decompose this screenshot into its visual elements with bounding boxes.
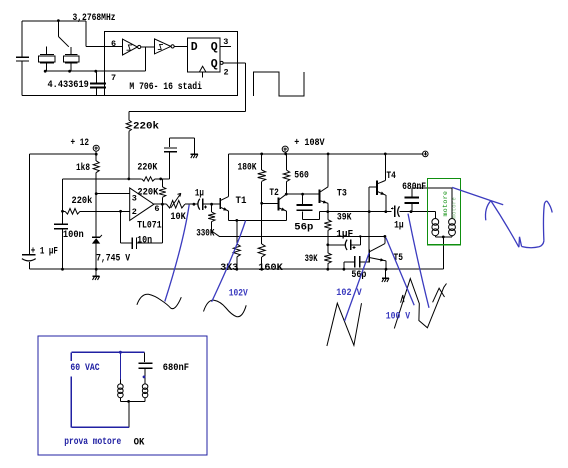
- svg-text:motore: motore: [450, 197, 457, 219]
- svg-text:T4: T4: [386, 171, 396, 182]
- svg-text:220K: 220K: [137, 187, 158, 198]
- svg-text:1μ: 1μ: [394, 221, 404, 232]
- svg-text:2: 2: [224, 67, 229, 77]
- svg-text:6: 6: [154, 204, 159, 214]
- svg-text:1μF: 1μF: [336, 229, 353, 240]
- svg-text:3: 3: [223, 37, 228, 47]
- svg-text:10n: 10n: [137, 235, 152, 246]
- svg-text:220k: 220k: [72, 195, 93, 207]
- svg-text:+ 1 μF: + 1 μF: [31, 246, 58, 257]
- svg-text:330K: 330K: [196, 229, 214, 240]
- svg-text:2: 2: [132, 207, 137, 217]
- svg-text:180K: 180K: [238, 163, 257, 174]
- svg-text:10K: 10K: [170, 212, 185, 223]
- svg-text:+ 108V: + 108V: [294, 138, 324, 149]
- svg-text:3,2768MHz: 3,2768MHz: [73, 13, 116, 24]
- svg-text:4.433619: 4.433619: [48, 80, 89, 91]
- svg-text:3K3: 3K3: [220, 263, 238, 274]
- svg-text:3: 3: [132, 194, 137, 204]
- svg-text:56p: 56p: [294, 223, 313, 234]
- svg-text:1μ: 1μ: [195, 189, 204, 200]
- svg-text:T3: T3: [337, 189, 347, 200]
- svg-text:motore: motore: [442, 191, 449, 217]
- svg-text:39K: 39K: [337, 213, 352, 224]
- svg-text:+ 12: + 12: [71, 138, 90, 149]
- svg-text:M 706- 16 stadi: M 706- 16 stadi: [129, 81, 202, 93]
- svg-text:7: 7: [111, 73, 116, 83]
- svg-text:39K: 39K: [305, 254, 318, 265]
- svg-text:TL071: TL071: [137, 221, 162, 232]
- svg-text:T1: T1: [236, 196, 247, 207]
- svg-text:102V: 102V: [229, 288, 248, 299]
- svg-text:680nF: 680nF: [402, 182, 426, 193]
- svg-text:100n: 100n: [63, 230, 84, 241]
- svg-text:D: D: [191, 41, 198, 54]
- svg-text:560: 560: [294, 171, 309, 182]
- svg-text:102 V: 102 V: [336, 288, 361, 299]
- svg-text:100 V: 100 V: [386, 312, 410, 323]
- svg-text:OK: OK: [134, 437, 145, 449]
- svg-text:T2: T2: [269, 188, 278, 199]
- svg-text:1k8: 1k8: [76, 162, 90, 174]
- svg-text:7,745 V: 7,745 V: [96, 254, 130, 265]
- svg-text:6: 6: [111, 39, 116, 49]
- svg-text:prova motore: prova motore: [64, 436, 121, 448]
- svg-text:220K: 220K: [137, 163, 157, 174]
- svg-text:220k: 220k: [133, 121, 159, 133]
- svg-text:60 VAC: 60 VAC: [70, 363, 99, 374]
- svg-text:680nF: 680nF: [163, 363, 189, 374]
- svg-text:Q: Q: [211, 41, 218, 54]
- svg-text:Q: Q: [211, 58, 218, 71]
